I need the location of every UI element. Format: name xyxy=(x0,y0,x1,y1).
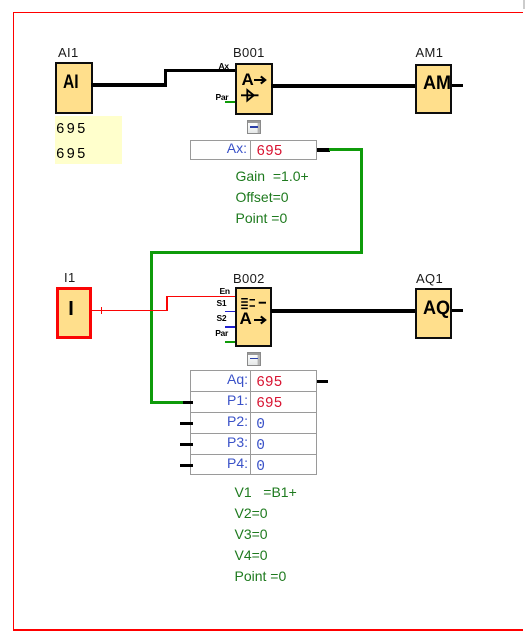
pin Ax label B001 xyxy=(219,62,229,70)
icon multiplexer B002 xyxy=(240,296,268,311)
frame border left xyxy=(13,12,14,630)
wire AI1 to B001 upper segment xyxy=(164,69,236,73)
block B002 label xyxy=(233,272,265,285)
parameter text B002 xyxy=(235,485,297,499)
junction tick red wire xyxy=(101,307,103,314)
icon A-arrow B002 xyxy=(240,311,252,326)
pin Par stub B001 xyxy=(225,101,236,103)
tick input P4 xyxy=(180,464,193,468)
block B001 xyxy=(235,63,273,115)
tick input P3 xyxy=(180,443,193,447)
node AM1 label xyxy=(416,46,444,59)
row P4 xyxy=(190,456,248,470)
block AI1 xyxy=(55,62,93,114)
pin S1 label B002 xyxy=(217,299,227,307)
red wire I1 to B002 En xyxy=(91,310,168,312)
pin Par label B001 xyxy=(216,93,229,101)
icon amplifier symbol B001 xyxy=(240,88,262,103)
pin Par label B002 xyxy=(215,329,228,337)
node I1 label xyxy=(64,271,76,284)
frame border bottom xyxy=(13,629,523,630)
tick input P2 xyxy=(180,422,193,426)
block B002 xyxy=(235,287,272,347)
parameter table B002 xyxy=(190,370,317,475)
parameter text B001 xyxy=(236,169,309,183)
output stub AQ1 xyxy=(452,309,463,312)
icon A-arrow B001 xyxy=(242,72,254,87)
row Aq xyxy=(190,372,248,386)
block AM1 xyxy=(415,64,453,114)
frame border top xyxy=(13,12,523,13)
block AQ1 xyxy=(415,288,452,339)
output stub AM1 xyxy=(452,84,463,87)
wire B001 to AM1 xyxy=(271,84,416,88)
pin S2 label B002 xyxy=(217,314,227,322)
tick output Aq xyxy=(317,380,328,384)
tick input P1 xyxy=(183,401,193,405)
green wire Ax to P1 xyxy=(329,148,363,151)
pin Par stub B002 xyxy=(225,341,236,343)
row P2 xyxy=(190,414,248,428)
scrollbar artifact top-right xyxy=(523,0,525,9)
row P3 xyxy=(190,435,248,449)
wire B002 to AQ1 xyxy=(271,309,416,313)
value box AI1 xyxy=(55,116,122,164)
row P1 xyxy=(190,393,248,407)
wire AI1 to B001 vertical step xyxy=(164,69,167,87)
parameter box Ax B001 xyxy=(190,140,317,160)
pin S1 stub B002 xyxy=(225,311,236,313)
pin S2 stub B002 xyxy=(225,326,236,328)
block I1 xyxy=(56,287,92,339)
minus button B002 xyxy=(247,352,261,366)
node AI1 label xyxy=(58,46,79,59)
pin En label B002 xyxy=(220,287,230,295)
tick output Ax box xyxy=(317,148,330,152)
wire AI1 to B001 lower segment xyxy=(91,83,167,87)
block B001 label xyxy=(233,46,265,59)
minus button B001 xyxy=(247,120,261,134)
node AQ1 label xyxy=(416,272,443,285)
